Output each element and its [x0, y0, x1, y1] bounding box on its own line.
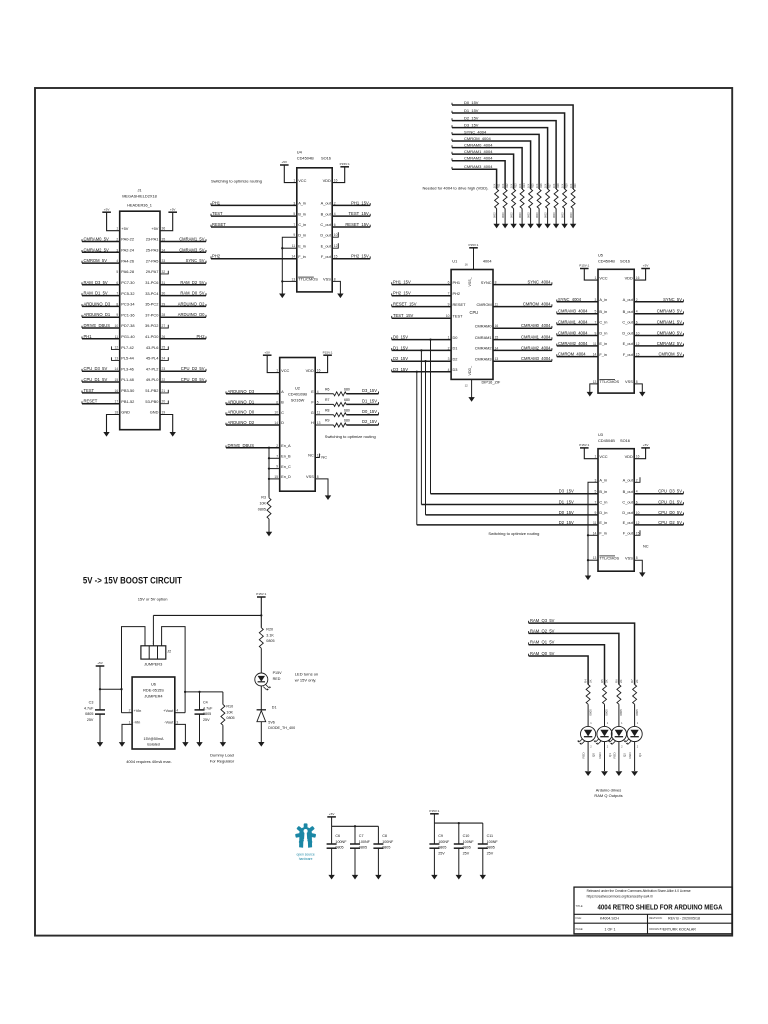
svg-text:CPU_D3_5V: CPU_D3_5V	[658, 489, 682, 494]
svg-text:1: 1	[116, 227, 118, 231]
U3 F_out hook	[634, 530, 640, 535]
wire net ARDUINO_D1 to J1 pin 9	[82, 316, 120, 318]
wire net PH2 to U4	[211, 258, 297, 260]
wire U5 out to net CMRAM0_5V	[634, 335, 683, 337]
wire net ARDUINO_D3 to U2	[226, 393, 280, 395]
svg-text:CMRAM2_5V: CMRAM2_5V	[84, 247, 110, 252]
svg-text:PAGE:: PAGE:	[576, 927, 584, 931]
wire U4 VCC to +5V	[284, 165, 297, 183]
ground	[279, 294, 285, 299]
svg-text:0805: 0805	[258, 508, 266, 512]
wire U5 VSS to ground	[634, 384, 642, 393]
wire J1 pin 34 to net CMRAM3_5V	[160, 251, 206, 253]
svg-text:+5V: +5V	[104, 207, 111, 211]
power P15V:1	[430, 813, 439, 815]
svg-text:C10: C10	[463, 834, 470, 838]
wire net D3_15V to U1 D3	[392, 371, 451, 373]
LED Q1 RED	[597, 726, 612, 741]
svg-text:VSS: VSS	[625, 555, 633, 560]
svg-text:10K: 10K	[562, 183, 565, 188]
wire U3 A_in/F_in/pin13 tie to ground	[588, 482, 598, 576]
svg-text:D1_15V: D1_15V	[393, 345, 408, 350]
svg-text:+5V: +5V	[170, 207, 177, 211]
power +5V	[327, 816, 336, 818]
wire net RESET to J1 pin 17	[82, 403, 120, 405]
wire U1 CMRAM1 to net CMRAM1_4004	[493, 339, 552, 341]
wire U3 pin13 stub	[588, 559, 598, 561]
wire J1 pin 33 to net SYNC_5V	[160, 262, 206, 264]
svg-text:25V: 25V	[487, 851, 494, 855]
svg-text:F_out: F_out	[321, 254, 332, 259]
svg-text:10K: 10K	[570, 183, 573, 188]
wire R10 to ground	[222, 725, 224, 742]
svg-text:4.7uF: 4.7uF	[203, 706, 213, 710]
svg-text:25V: 25V	[438, 851, 445, 855]
svg-text:P15V:1: P15V:1	[340, 162, 350, 166]
junction	[268, 467, 270, 469]
IC U2 CD40109B	[280, 358, 316, 492]
junction	[281, 247, 283, 249]
svg-text:R5: R5	[600, 679, 604, 683]
U4 E_out hook	[332, 243, 338, 248]
wire U2 VSS to ground	[315, 479, 328, 496]
svg-text:D0_15V: D0_15V	[559, 510, 574, 515]
svg-text:A_in: A_in	[599, 297, 607, 302]
svg-text:SYNC_5V: SYNC_5V	[186, 258, 205, 263]
ground	[631, 771, 638, 776]
wire J1 pin 30 to net RAM_D0_5V	[160, 295, 206, 297]
wire U5 out to net SYNC_5V	[634, 301, 683, 303]
svg-text:CMRAM0_5V: CMRAM0_5V	[657, 331, 683, 336]
wire	[634, 704, 636, 726]
svg-text:13: 13	[317, 421, 321, 425]
svg-text:680: 680	[344, 398, 350, 402]
svg-text:16: 16	[465, 263, 469, 267]
svg-text:PH1_15V: PH1_15V	[393, 280, 411, 285]
svg-text:R14: R14	[523, 183, 526, 188]
bus wire horizontal to U3	[421, 504, 598, 506]
svg-text:10K: 10K	[494, 183, 497, 188]
svg-text:SO16: SO16	[321, 156, 331, 161]
wire J1 pin 29 to net ARDUINO_D2	[160, 305, 206, 307]
svg-text:B_in: B_in	[298, 211, 306, 216]
power P15V:1	[580, 268, 589, 270]
power +5V	[263, 354, 272, 356]
svg-text:JUMPER4: JUMPER4	[144, 694, 163, 699]
svg-text:ARDUINO_D2: ARDUINO_D2	[228, 420, 255, 425]
svg-text:CMRAM2_4004: CMRAM2_4004	[558, 341, 588, 346]
wire net PH2_15V to U1 PH2	[392, 295, 451, 297]
svg-text:CMRAM2_5V: CMRAM2_5V	[657, 341, 683, 346]
svg-text:10K: 10K	[528, 183, 531, 188]
power +5V	[168, 211, 177, 213]
junction	[260, 614, 262, 616]
wire R8 to net D0_15V	[346, 414, 378, 416]
ground	[258, 742, 264, 747]
wire net CMRAM2_4004 to pull-up	[452, 161, 505, 189]
svg-text:VCC: VCC	[298, 178, 306, 183]
svg-text:CMRAM2_4004: CMRAM2_4004	[521, 345, 551, 350]
svg-text:D2: D2	[453, 356, 458, 361]
wire net RESET_15V to U1 RESET	[392, 306, 451, 308]
bus wire horizontal to U3	[431, 493, 599, 495]
svg-text:isolated: isolated	[147, 743, 160, 747]
module U6 RDE-0515S	[132, 677, 175, 749]
svg-text:CMROM_5V: CMROM_5V	[659, 352, 683, 357]
svg-text:RAM_D2_5V: RAM_D2_5V	[180, 280, 204, 285]
wire net RESET to U4	[211, 226, 297, 228]
svg-text:A_in: A_in	[298, 201, 306, 206]
svg-text:PA2-24: PA2-24	[121, 248, 135, 253]
svg-text:PC5-32: PC5-32	[121, 291, 134, 296]
junction	[268, 457, 270, 459]
svg-text:CPU_D0_5V: CPU_D0_5V	[181, 377, 205, 382]
svg-text:For Regulator: For Regulator	[210, 758, 235, 763]
wire to C4	[199, 692, 201, 710]
svg-text:D_out: D_out	[320, 232, 331, 237]
svg-text:CPU: CPU	[470, 310, 479, 315]
svg-text:CMRAM3_4004: CMRAM3_4004	[464, 164, 493, 169]
svg-text:E_out: E_out	[623, 341, 634, 346]
wire	[513, 209, 515, 225]
wire	[530, 209, 532, 225]
capacitor C11 100NF	[478, 843, 488, 845]
resistor R3 10K	[267, 498, 271, 519]
svg-text:ARDUINO_D0: ARDUINO_D0	[178, 312, 205, 317]
svg-text:SYNC_4004: SYNC_4004	[527, 280, 551, 285]
wire U5 out to net CMRAM1_5V	[634, 324, 683, 326]
power P15V:1	[469, 247, 478, 249]
capacitor C8 100NF	[373, 843, 383, 845]
wire net RAM_D3_5V to J1 pin 6	[82, 284, 120, 286]
svg-text:NC: NC	[643, 543, 649, 548]
wire net TEST_15V to U1 TEST	[392, 317, 451, 319]
svg-text:K4004.SCH: K4004.SCH	[600, 917, 619, 921]
svg-text:C: C	[281, 410, 284, 415]
svg-text:En_B: En_B	[281, 454, 291, 459]
resistor R6 680	[334, 392, 347, 396]
svg-text:100NF: 100NF	[382, 840, 394, 844]
J1 pin 20 no-connect hook	[160, 401, 168, 404]
svg-text:18: 18	[115, 411, 119, 415]
svg-text:C4: C4	[203, 701, 208, 705]
svg-text:35-PC2: 35-PC2	[145, 302, 158, 307]
svg-text:0805: 0805	[359, 846, 367, 850]
svg-text:D1_15V: D1_15V	[362, 399, 377, 404]
pull-up resistor R16 10K	[537, 189, 541, 209]
svg-text:D3_15V: D3_15V	[362, 388, 377, 393]
power P15V:1	[257, 596, 266, 598]
svg-text:PA4-26: PA4-26	[121, 258, 134, 263]
wire net CPU_D1_5V to J1 pin 15	[82, 381, 120, 383]
svg-text:VDD: VDD	[323, 178, 331, 183]
wire to ground	[433, 848, 435, 875]
svg-text:TEST_15V: TEST_15V	[393, 313, 413, 318]
svg-text:100NF: 100NF	[438, 840, 450, 844]
svg-text:U4: U4	[297, 150, 303, 155]
svg-text:R6: R6	[325, 387, 330, 391]
svg-text:REVISION:: REVISION:	[649, 916, 662, 920]
wire U4 out to net TEST_15V	[332, 215, 370, 217]
J1 pin 12 no-connect hook	[112, 346, 120, 349]
wire U6 -Vin to ground	[122, 724, 132, 742]
svg-text:680: 680	[344, 419, 350, 423]
svg-text:PH1: PH1	[453, 280, 461, 285]
svg-text:Dummy Load: Dummy Load	[210, 753, 234, 758]
svg-text:CMRAM3_4004: CMRAM3_4004	[521, 356, 551, 361]
junction	[429, 338, 431, 340]
wire to ground	[377, 848, 379, 875]
U4 D_out hook	[332, 232, 338, 237]
svg-text:ARDUINO_D1: ARDUINO_D1	[228, 399, 255, 404]
wire net PH1_15V to U1 PH1	[392, 284, 451, 286]
wire R3 to ground	[268, 519, 270, 532]
svg-text:20: 20	[162, 400, 166, 404]
pull-up resistor R11 10K	[495, 189, 499, 209]
svg-text:Q2: Q2	[623, 753, 627, 757]
wire U2 VDD to P15V	[315, 355, 327, 372]
IC U5 CD4504B	[598, 269, 634, 393]
svg-text:DRIVE_DBUS: DRIVE_DBUS	[228, 443, 255, 448]
svg-text:RESET: RESET	[84, 399, 98, 404]
svg-text:PB3-50: PB3-50	[121, 388, 135, 393]
svg-text:C9: C9	[438, 834, 443, 838]
svg-text:CMRAM3_4004: CMRAM3_4004	[558, 309, 588, 314]
ground	[585, 771, 592, 776]
svg-text:11: 11	[593, 521, 597, 525]
svg-text:2: 2	[129, 709, 131, 713]
ground	[544, 224, 550, 229]
svg-text:VDD_: VDD_	[468, 365, 472, 376]
svg-text:2K: 2K	[635, 679, 639, 683]
svg-text:1: 1	[129, 720, 131, 724]
pull-up resistor R14 10K	[520, 189, 524, 209]
svg-text:R20: R20	[574, 183, 577, 188]
wire U6 +Vout	[175, 712, 185, 714]
wire net RAM_Q0_5V	[529, 656, 589, 685]
wire C4 to ground	[199, 714, 201, 743]
wire U2 to R9	[315, 424, 333, 426]
svg-text:27-PA5: 27-PA5	[146, 258, 159, 263]
svg-text:CMROM_5V: CMROM_5V	[84, 258, 108, 263]
svg-text:CMRAM3_5V: CMRAM3_5V	[179, 247, 205, 252]
wire net CMROM_4004 to U5	[557, 356, 598, 358]
svg-text:9: 9	[293, 233, 295, 237]
ground	[97, 742, 103, 747]
junction	[458, 822, 460, 824]
svg-text:P15V:1: P15V:1	[256, 592, 266, 596]
svg-text:0805: 0805	[487, 846, 495, 850]
svg-text:PH2: PH2	[212, 254, 221, 259]
svg-text:13: 13	[593, 380, 597, 384]
ground	[585, 576, 591, 581]
ground	[103, 432, 109, 437]
resistor R7 2K	[633, 685, 637, 705]
svg-text:14: 14	[593, 531, 597, 535]
ground	[266, 532, 272, 537]
svg-text:ARDUINO_D0: ARDUINO_D0	[228, 410, 255, 415]
ground	[328, 875, 334, 880]
pull-up resistor R15 10K	[529, 189, 533, 209]
svg-text:REV B - 2020/05/18: REV B - 2020/05/18	[668, 917, 700, 921]
ground	[119, 742, 125, 747]
svg-text:ARDUINO_D2: ARDUINO_D2	[178, 301, 205, 306]
wire to ground	[458, 848, 460, 875]
wire P15V to R20	[260, 597, 262, 628]
wire net CPU_D3_5V to J1 pin 14	[82, 370, 120, 372]
J1 pin 25 no-connect hook	[160, 346, 168, 349]
svg-text:CPU_D1_5V: CPU_D1_5V	[84, 377, 108, 382]
wire U5 out to net CMRAM2_5V	[634, 345, 683, 347]
wire net ARDUINO_D3 to J1 pin 8	[82, 305, 120, 307]
svg-text:PA0-22: PA0-22	[121, 237, 134, 242]
svg-text:0805: 0805	[463, 846, 471, 850]
wire net DRIVE_DBUS to U2 En_A	[226, 447, 280, 449]
svg-text:D2_15V: D2_15V	[393, 356, 408, 361]
wire	[618, 704, 620, 726]
svg-text:16: 16	[334, 179, 338, 183]
junction	[416, 371, 418, 373]
LED Q3 RED	[627, 726, 642, 741]
svg-text:D3_15V: D3_15V	[464, 123, 479, 128]
svg-text:E_out: E_out	[321, 243, 332, 248]
wire +Vout rail	[185, 691, 223, 693]
wire U2 VCC to +5V	[267, 355, 280, 372]
wire J1 pin1 +5V	[107, 212, 120, 231]
svg-text:4.7uF: 4.7uF	[84, 706, 94, 710]
resistor R7 680	[334, 402, 347, 406]
svg-text:CMRAM1_5V: CMRAM1_5V	[657, 320, 683, 325]
svg-text:J2: J2	[167, 649, 171, 653]
svg-text:CD4504B: CD4504B	[598, 438, 615, 443]
wire C3 to ground	[99, 714, 101, 743]
svg-text:100NF: 100NF	[335, 840, 347, 844]
wire U3 out to net CPU_D3_5V	[634, 493, 683, 495]
wire U2 to R7	[315, 403, 333, 405]
svg-text:4004: 4004	[483, 259, 492, 264]
svg-text:DIODE_TH_400: DIODE_TH_400	[268, 726, 295, 730]
wire to ground	[482, 848, 484, 875]
wire U5 out to net CMRAM3_5V	[634, 313, 683, 315]
svg-text:41-PG0: 41-PG0	[145, 334, 159, 339]
wire U4 VSS to ground	[332, 281, 340, 294]
svg-text:R12: R12	[506, 183, 509, 188]
wire U2 enable stub	[269, 457, 280, 459]
svg-text:3: 3	[176, 720, 178, 724]
svg-text:B_in: B_in	[599, 489, 607, 494]
svg-text:VDD: VDD	[625, 454, 633, 459]
ground	[456, 875, 462, 880]
wire U4 VDD to P15V	[332, 167, 345, 183]
LED Q0 RED	[581, 726, 596, 741]
wire jumper pin1 to +5V node	[122, 627, 146, 713]
svg-text:25: 25	[162, 346, 166, 350]
svg-text:32: 32	[162, 270, 166, 274]
resistor R8 680	[334, 413, 347, 417]
wire to ground	[331, 848, 333, 875]
svg-text:43-PL6: 43-PL6	[146, 345, 159, 350]
wire LED to ground	[618, 742, 620, 771]
svg-text:37-PC0: 37-PC0	[145, 312, 159, 317]
wire U3 out to net CPU_D0_5V	[634, 514, 683, 516]
svg-text:33-PC4: 33-PC4	[145, 291, 159, 296]
wire net CMRAM0_4004 to U5	[557, 335, 598, 337]
svg-text:D2_15V: D2_15V	[362, 419, 377, 424]
IC U3 CD4504B	[598, 449, 634, 572]
svg-text:CMROM_4004: CMROM_4004	[558, 352, 586, 357]
wire to U6 +Vin	[122, 712, 133, 714]
svg-text:PH1_15V: PH1_15V	[351, 200, 369, 205]
wire net CMRAM2_5V to J1 pin 3	[82, 251, 120, 253]
wire net CMRAM3_4004 to pull-up	[452, 169, 497, 189]
svg-text:7: 7	[595, 501, 597, 505]
junction	[184, 691, 186, 693]
svg-text:D_out: D_out	[622, 510, 633, 515]
svg-text:R17: R17	[549, 183, 552, 188]
svg-text:51-PB2: 51-PB2	[145, 388, 158, 393]
svg-text:U3: U3	[598, 432, 603, 437]
svg-text:100NF: 100NF	[487, 840, 499, 844]
ground	[196, 742, 202, 747]
svg-text:C3: C3	[89, 701, 94, 705]
svg-text:G: G	[311, 410, 314, 415]
bus wire vertical	[416, 372, 418, 525]
svg-text:47-PL2: 47-PL2	[146, 366, 159, 371]
svg-text:R10: R10	[226, 705, 233, 709]
svg-text:13: 13	[115, 356, 119, 360]
svg-text:12: 12	[465, 384, 469, 388]
svg-text:16: 16	[636, 276, 640, 280]
svg-text:B_out: B_out	[623, 309, 634, 314]
resistor R5 2K	[603, 685, 607, 705]
wire J1 pin 28 to net ARDUINO_D0	[160, 316, 206, 318]
svg-text:0805: 0805	[266, 639, 274, 643]
svg-text:U5: U5	[598, 253, 603, 258]
svg-text:J1: J1	[137, 187, 141, 192]
svg-text:DIP16_ZIF: DIP16_ZIF	[482, 380, 501, 385]
pull-up resistor R13 10K	[512, 189, 516, 209]
ground	[553, 224, 559, 229]
svg-text:PL1-48: PL1-48	[121, 377, 134, 382]
svg-text:CD4504B: CD4504B	[598, 259, 615, 264]
svg-text:0805: 0805	[605, 709, 609, 716]
wire U2 enable stub	[269, 468, 280, 470]
J1 pin 32 no-connect hook	[160, 271, 168, 274]
bus wire vertical	[430, 340, 432, 494]
svg-text:B_in: B_in	[599, 309, 607, 314]
svg-text:VSS_: VSS_	[468, 276, 472, 286]
resistor R9 680	[334, 423, 347, 427]
svg-text:8: 8	[334, 277, 336, 281]
title block	[574, 887, 732, 934]
junction	[99, 688, 101, 690]
wire R9 to net D2_15V	[346, 424, 378, 426]
wire net TEST to J1 pin 16	[82, 392, 120, 394]
svg-text:A: A	[281, 389, 284, 394]
wire net ARDUINO_D1 to U2	[226, 403, 280, 405]
ground	[468, 397, 474, 402]
svg-text:19: 19	[162, 411, 166, 415]
wire J1 pin18 GND	[107, 415, 120, 433]
svg-text:SO16W: SO16W	[291, 397, 305, 402]
svg-text:R20: R20	[266, 628, 273, 632]
capacitor C10 100NF	[454, 843, 464, 845]
svg-text:13: 13	[593, 556, 597, 560]
power +5V	[102, 211, 111, 213]
svg-text:open source: open source	[297, 852, 315, 856]
svg-text:10K: 10K	[511, 183, 514, 188]
svg-text:12: 12	[115, 346, 119, 350]
